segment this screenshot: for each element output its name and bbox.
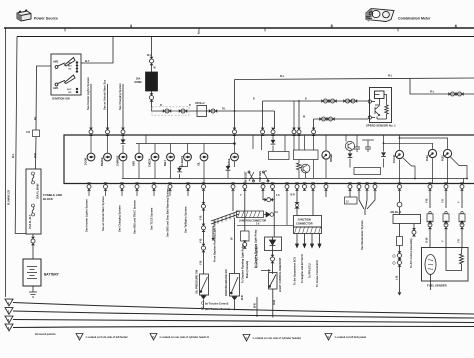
- svg-text:W-B: W-B: [272, 300, 276, 305]
- svg-text:See SRS and Seat Belt Warning: See SRS and Seat Belt Warning System: [166, 188, 170, 237]
- svg-text:B-Y: B-Y: [85, 59, 90, 63]
- svg-text:ST2: ST2: [68, 65, 73, 67]
- svg-text:See Taillights System: See Taillights System: [184, 206, 188, 233]
- svg-text:VCA FL ALT: VCA FL ALT: [29, 214, 32, 229]
- svg-text:2: 2: [198, 30, 201, 35]
- svg-text:W-L: W-L: [147, 54, 152, 57]
- svg-text:OIL: OIL: [198, 161, 201, 166]
- svg-text:R-L: R-L: [388, 74, 393, 78]
- svg-text:M RESET: M RESET: [245, 171, 248, 182]
- svg-text:R-L: R-L: [280, 74, 285, 78]
- svg-text:7-8: 7-8: [457, 239, 461, 243]
- svg-text:FUEL SENDER: FUEL SENDER: [427, 284, 447, 288]
- svg-text:R: R: [189, 105, 191, 107]
- svg-text:(w/ Traction Control): (w/ Traction Control): [205, 303, 228, 306]
- svg-text:W-R: W-R: [34, 153, 37, 158]
- svg-text:2J: 2J: [346, 201, 349, 203]
- svg-text:W: W: [303, 117, 306, 119]
- svg-text:W: W: [154, 67, 157, 70]
- svg-text:IG1: IG1: [68, 68, 72, 70]
- svg-text:G-W: G-W: [425, 237, 429, 243]
- svg-text:R: R: [160, 105, 162, 107]
- svg-text:Ground points: Ground points: [35, 332, 56, 336]
- svg-text:To Daytime Running Light Relay: To Daytime Running Light Relay: [242, 244, 245, 283]
- svg-text:ABS: ABS: [133, 161, 136, 166]
- svg-text:CONNECTOR: CONNECTOR: [296, 222, 313, 226]
- svg-text:Combination Meter: Combination Meter: [398, 17, 431, 21]
- svg-text:See Interior Lights System: See Interior Lights System: [85, 199, 89, 232]
- svg-text:: Located on front side of lef: : Located on front side of left fender: [85, 336, 128, 339]
- svg-text:IGNITION SW: IGNITION SW: [52, 97, 70, 101]
- svg-text:R-L: R-L: [34, 115, 37, 120]
- svg-text:ACC: ACC: [67, 88, 72, 91]
- svg-text:See Interior Lights System: See Interior Lights System: [86, 77, 90, 110]
- svg-text:FUEL: FUEL: [442, 154, 445, 161]
- svg-text:See Illumination System: See Illumination System: [360, 219, 364, 250]
- svg-text:1-6: 1-6: [275, 212, 279, 214]
- svg-text:J/B No.2: J/B No.2: [195, 102, 205, 105]
- svg-text:AM2: AM2: [53, 61, 59, 64]
- svg-text:W-L: W-L: [12, 153, 15, 158]
- svg-text:BLOCK: BLOCK: [43, 197, 53, 201]
- svg-text:FL MAIN 1.25: FL MAIN 1.25: [8, 189, 11, 205]
- svg-text:R-L: R-L: [430, 90, 435, 94]
- svg-text:From Daytime Running Light Rel: From Daytime Running Light Relay: [214, 220, 217, 262]
- svg-text:See TCCS System: See TCCS System: [150, 207, 154, 230]
- svg-text:Y: Y: [240, 194, 242, 197]
- svg-text:: Located on rear side of cyli: : Located on rear side of cylinder head …: [159, 336, 209, 339]
- svg-text:See Charging System: See Charging System: [118, 83, 122, 110]
- svg-text:W-B: W-B: [254, 303, 257, 308]
- svg-text:J/B No. 3: J/B No. 3: [390, 210, 402, 214]
- svg-text:B-R: B-R: [291, 194, 296, 197]
- svg-text:See an Unlock Warn System: See an Unlock Warn System: [101, 196, 105, 231]
- svg-text:B: B: [253, 99, 255, 101]
- svg-text:JUNCTION CONNECTOR: JUNCTION CONNECTOR: [239, 221, 266, 223]
- svg-text:OIL PRESSURE SW: OIL PRESSURE SW: [195, 269, 199, 294]
- svg-text:IG1: IG1: [68, 92, 72, 94]
- svg-text:(w/o Traction Control): (w/o Traction Control): [205, 308, 230, 311]
- svg-text:TRIP RES: TRIP RES: [259, 171, 262, 182]
- svg-text:From A/C Amplifier: From A/C Amplifier: [256, 245, 259, 268]
- svg-text:B: B: [305, 99, 307, 101]
- svg-text:1-8: 1-8: [276, 194, 280, 197]
- svg-text:Y-B: Y-B: [199, 261, 203, 265]
- svg-text:DOME: DOME: [135, 81, 143, 84]
- svg-text:LIGHT CONTROL RHEOSTAT: LIGHT CONTROL RHEOSTAT: [279, 257, 282, 292]
- svg-text:×10: ×10: [26, 131, 31, 134]
- svg-text:R.LIGHTS: R.LIGHTS: [181, 155, 184, 167]
- svg-text:CHARGE: CHARGE: [117, 155, 120, 166]
- svg-text:W: W: [230, 237, 234, 240]
- svg-text:TACHO: TACHO: [393, 155, 396, 163]
- svg-text:7-8: 7-8: [441, 199, 445, 203]
- svg-text:BATTERY: BATTERY: [44, 273, 60, 277]
- svg-text:: Located on rear side of cyli: : Located on rear side of cylinder head(…: [252, 337, 301, 340]
- svg-text:SPEED: SPEED: [330, 154, 333, 162]
- svg-text:AM1: AM1: [53, 87, 59, 90]
- svg-text:L-B: L-B: [395, 276, 399, 280]
- svg-text:Main (Canada): Main (Canada): [246, 261, 249, 278]
- svg-text:FUEL: FUEL: [426, 154, 429, 161]
- svg-text:To the Suspension ECU: To the Suspension ECU: [294, 257, 297, 285]
- svg-text:BRAKE: BRAKE: [101, 157, 104, 166]
- svg-text:PARKING BRAKE SW: PARKING BRAKE SW: [224, 269, 228, 296]
- svg-text:See ABS and TRAC System: See ABS and TRAC System: [133, 199, 137, 234]
- svg-text:W-B: W-B: [241, 295, 244, 300]
- svg-text:BRAKE: BRAKE: [228, 158, 231, 167]
- svg-text:DOOR: DOOR: [85, 158, 88, 165]
- svg-text:30A FL MAIN: 30A FL MAIN: [37, 184, 40, 199]
- svg-text:SPEED SENSOR No. 1: SPEED SENSOR No. 1: [366, 124, 396, 128]
- svg-text:See Charging System: See Charging System: [118, 205, 122, 232]
- svg-text:: Located on left kick panel: : Located on left kick panel: [334, 336, 366, 339]
- svg-text:R-L: R-L: [222, 109, 226, 111]
- svg-text:CHECK: CHECK: [149, 158, 152, 167]
- svg-text:To PPS ECU: To PPS ECU: [309, 263, 312, 278]
- svg-text:Y: Y: [457, 201, 461, 203]
- svg-text:To Cruise Control ECU: To Cruise Control ECU: [316, 260, 319, 287]
- svg-text:See an Unlock Warn Sys: See an Unlock Warn Sys: [103, 79, 107, 110]
- svg-text:BELT: BELT: [164, 159, 167, 166]
- svg-text:Power Source: Power Source: [34, 17, 58, 21]
- svg-text:Y-B: Y-B: [199, 239, 203, 243]
- svg-text:To A/C Control Assembly: To A/C Control Assembly: [410, 238, 413, 268]
- svg-text:Y: Y: [441, 240, 445, 242]
- svg-text:Y-B: Y-B: [425, 199, 429, 203]
- svg-text:JUNCTION: JUNCTION: [298, 218, 311, 222]
- svg-text:Y-B: Y-B: [199, 216, 203, 220]
- svg-text:To Engine and ECT ECU: To Engine and ECT ECU: [301, 254, 304, 283]
